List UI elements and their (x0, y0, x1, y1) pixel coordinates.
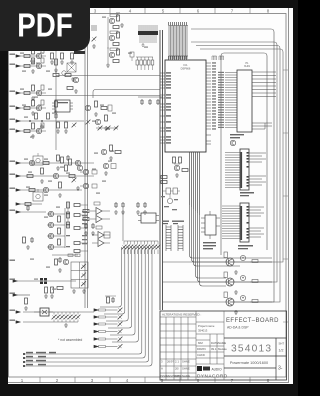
resistor column mid (61, 157, 83, 190)
svg-text:26/97: 26/97 (167, 360, 174, 364)
opamp stage D (92, 240, 110, 247)
zone numbers bottom (21, 378, 270, 383)
revision table entries (161, 360, 191, 379)
P1 pin number labels (218, 72, 224, 128)
bus line labels (26, 352, 56, 366)
P1 footnote text (230, 134, 244, 138)
filter caps row A (50, 53, 74, 64)
output stage Q12 (162, 292, 272, 314)
DSP IC U1 body (165, 60, 206, 152)
connector IC P2 body (240, 149, 249, 190)
small parts row y240 (23, 237, 35, 249)
oscillator cluster (161, 188, 180, 210)
svg-text:MM: MM (198, 341, 203, 345)
svg-text:354013: 354013 (198, 329, 208, 333)
horizontal rails top-left (40, 76, 160, 99)
svg-text:1/2: 1/2 (279, 349, 284, 353)
PDF badge (0, 0, 90, 51)
part number cell divider (224, 338, 287, 380)
diode row under J1 (136, 57, 154, 70)
header J3 ladder (178, 225, 183, 251)
top-left small cluster A (27, 17, 46, 29)
xtal cluster (92, 25, 97, 48)
svg-text:Meiske: Meiske (218, 347, 227, 351)
relay box row B (33, 189, 43, 201)
zone tick marks bottom (40, 377, 250, 383)
P1 label (244, 62, 251, 68)
lower-left stage row L3 (13, 294, 30, 311)
opamp stage C (92, 226, 110, 239)
scattered value labels upper left (20, 13, 148, 290)
vertical wire to resistor array (122, 208, 124, 241)
svg-text:20/: 20/ (175, 367, 179, 371)
svg-text:CHKD: CHKD (197, 353, 205, 357)
relay box row A (33, 153, 43, 165)
top-left small cluster B (50, 17, 62, 29)
svg-text:* not assembled: * not assembled (58, 338, 82, 342)
connector J1 comb with body (138, 25, 158, 47)
P1 left pins (225, 73, 237, 128)
nested top wire 3 (196, 46, 280, 303)
res cap pair above fan (105, 296, 116, 303)
under-DSP reset stage (173, 157, 189, 177)
vertical stage chain cell 1 (108, 14, 124, 49)
DSP left pin stubs with labels (160, 73, 165, 143)
P3 label below (238, 245, 253, 249)
output stage Q11 (162, 272, 272, 294)
svg-text:NAME: NAME (182, 374, 190, 378)
svg-text:XLR1: XLR1 (244, 65, 251, 68)
svg-text:EFFECT–BOARD: EFFECT–BOARD (226, 318, 279, 324)
resistor pair row B (53, 74, 79, 83)
black bottom margin (0, 384, 298, 396)
mid cluster stage extra1 (101, 145, 121, 160)
bias network block (47, 208, 70, 250)
svg-text:SHT: SHT (279, 342, 285, 346)
svg-text:SHNE: SHNE (182, 360, 190, 364)
P3 right pins to bus (249, 207, 264, 237)
svg-text:ALTERATIONS RESERVED :: ALTERATIONS RESERVED : (162, 313, 202, 317)
manufacturer logo block (197, 366, 228, 380)
small IC U2 (52, 100, 73, 112)
mid diode string (96, 126, 118, 131)
input stage row IN9 (16, 182, 82, 197)
DSP bottom pin bundle going down (190, 152, 200, 215)
connector IC P1 body (237, 70, 252, 132)
svg-text:AD-DA & DSP: AD-DA & DSP (227, 326, 249, 330)
power label dark box (74, 51, 85, 54)
svg-text:NAME: NAME (218, 341, 226, 345)
black top margin (0, 0, 298, 8)
mini combs above label columns (212, 56, 224, 60)
decoupling cap pair A (114, 202, 125, 214)
black left margin (0, 0, 8, 396)
transistor under P1 (230, 140, 235, 145)
tiny net labels left margin (10, 54, 16, 321)
opamp stage B (83, 216, 110, 223)
input stage row IN7 (16, 155, 94, 170)
svg-text:09.1: 09.1 (211, 347, 217, 351)
output stage Q10 (162, 252, 272, 274)
main vertical rail pair center (160, 30, 163, 310)
ribbon connector comb top (169, 22, 189, 26)
title block outer box (160, 311, 287, 380)
svg-text:DSP666: DSP666 (181, 67, 191, 71)
P2 left pins (225, 153, 240, 188)
bridge rectifier cluster (62, 63, 76, 81)
three bypass caps row (138, 97, 162, 105)
P3 left pins (222, 206, 240, 239)
input stage row IN3 (16, 85, 46, 100)
mid bundle corners turning right (190, 205, 273, 286)
net fan arrows with diagonal resistors (94, 308, 122, 313)
small box near opamp D (104, 232, 110, 238)
lower-left preamp cluster (52, 254, 80, 272)
DSP left pin labels (166, 72, 171, 143)
rounded enclosure around output connectors (221, 53, 267, 255)
U5 caption lines (203, 242, 216, 249)
left mid bundle vertical lines with corners (24, 247, 152, 366)
jack contact matrix (71, 262, 88, 293)
svg-text:Project name: Project name (198, 324, 215, 328)
mid cluster stage M1 (85, 101, 112, 116)
nested top wire 2 (191, 42, 277, 282)
svg-text:AUDIO: AUDIO (212, 368, 223, 372)
P3 inner pin marks (241, 206, 249, 240)
opamp stage A (83, 202, 110, 215)
connector IC P3 body (240, 203, 249, 242)
ribbon cable bus above DSP (169, 26, 187, 59)
bus line terminal dots (23, 353, 25, 367)
decoupling cap pair B (136, 202, 147, 214)
svg-text:DRWN: DRWN (197, 347, 206, 351)
diode ladder right of bias (67, 202, 70, 228)
P2 inner pin marks (241, 152, 249, 188)
svg-text:354013: 354013 (231, 344, 272, 355)
svg-text:PDF: PDF (17, 7, 72, 44)
svg-text:IC1: IC1 (183, 63, 188, 67)
input stage row IN2 (16, 58, 58, 73)
rail tap resistors (161, 176, 167, 184)
stage row y212 (16, 205, 46, 213)
mid cluster stage extra2 (103, 163, 116, 175)
svg-text:DATE: DATE (175, 374, 182, 378)
DSP-side net label column (82, 211, 87, 244)
diagonal resistor array top (122, 241, 161, 254)
header J2 top labels (162, 221, 184, 225)
black right margin (293, 0, 298, 396)
lower-left stage row L2 with relay (13, 278, 76, 298)
P2 label below (240, 192, 254, 196)
mid cluster stage M2 (86, 115, 108, 130)
nested top wire 1 (191, 29, 274, 302)
components under U2 (56, 122, 76, 133)
vertical stage chain cell 3 (106, 47, 120, 67)
diagonal resistor array bottom-left (52, 312, 81, 327)
input stage row IN6 (16, 123, 46, 138)
svg-text:Powermate 1000/1600: Powermate 1000/1600 (230, 361, 268, 365)
zone tick marks right (283, 70, 288, 322)
DSP IC label (181, 63, 191, 71)
PDF badge label (0, 0, 90, 51)
vertical stage chain cell 2 (109, 31, 119, 46)
decoupling cap pair C (84, 223, 95, 235)
stage row y204 (16, 203, 42, 206)
svg-text:SHNE: SHNE (182, 367, 190, 371)
DSP right pin stubs (206, 63, 211, 144)
zone numbers top (94, 9, 270, 14)
svg-text:3-: 3- (278, 366, 283, 372)
P2 right pins to bus (249, 153, 266, 185)
revision table grid (160, 311, 196, 380)
mute arrows (16, 311, 20, 313)
input stage row IN4 (16, 100, 58, 115)
header J2 ladder (166, 225, 171, 251)
input stage row IN1 (16, 48, 46, 63)
secondary vertical rail pair (85, 40, 88, 308)
svg-text:2.1: 2.1 (175, 360, 179, 364)
mid transistor pair lower (80, 169, 97, 174)
small IC U5 body (205, 215, 216, 235)
nested top wire 4 (200, 49, 283, 262)
svg-text:DYNACORD: DYNACORD (197, 374, 228, 380)
drawing frame inner border (9, 14, 287, 378)
P1 right pins to bus (252, 72, 276, 129)
zone tick marks left (5, 70, 10, 322)
vertical wire x56 (55, 48, 57, 150)
zone tick marks top (40, 8, 250, 14)
ribbon connector comb bottom (169, 56, 189, 60)
input stage row IN5 with junction dots (16, 113, 84, 128)
diode pair below bridge (67, 87, 78, 94)
input stage row IN8 (16, 168, 94, 183)
input resistor column (74, 204, 88, 253)
svg-text:A: A (161, 367, 163, 371)
project name text (197, 324, 227, 357)
project name cell (196, 311, 224, 380)
optocoupler box (138, 213, 159, 223)
U5 pins (201, 211, 220, 239)
mute switch header (34, 308, 53, 316)
small part with label mid-top (130, 52, 134, 61)
title area: EFFECT-BOARD (226, 318, 279, 330)
wire row through mute (23, 312, 94, 322)
DSP right pin labels column (212, 62, 216, 129)
